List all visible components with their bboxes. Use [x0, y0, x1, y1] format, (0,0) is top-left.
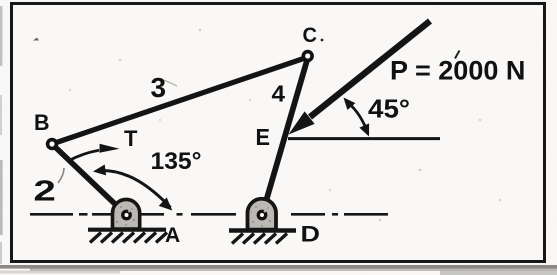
pin support block D — [229, 199, 296, 231]
svg-text:C: C — [303, 24, 318, 47]
ground hatching at A — [90, 233, 167, 243]
svg-text:A: A — [165, 224, 180, 247]
svg-text:P = 2000 N: P = 2000 N — [390, 56, 525, 86]
svg-text:4: 4 — [272, 81, 286, 107]
link 3 (coupler B-C) — [52, 57, 308, 144]
135 degree angle arc with arrowheads — [93, 165, 172, 211]
node C label — [321, 39, 324, 42]
svg-text:T: T — [124, 126, 138, 151]
pin D (revolute joint) — [258, 210, 266, 219]
link 2 (crank A-B) — [52, 144, 127, 215]
pin A (revolute joint) — [123, 210, 131, 219]
svg-text:135°: 135° — [151, 148, 202, 175]
ground centerline (dash-dot axis through pins A and D) — [30, 213, 388, 216]
ground hatching at D — [232, 234, 287, 244]
joint C — [303, 52, 312, 61]
pin support block A — [88, 199, 166, 229]
link 4 (rocker C-E-D) — [262, 57, 308, 215]
horizontal reference line at E — [288, 137, 440, 140]
svg-text:E: E — [256, 124, 271, 150]
joint B — [48, 140, 57, 149]
force P arrow (applied at E) — [289, 21, 431, 135]
45 degree angle arc with arrowheads — [344, 98, 370, 137]
svg-text:45°: 45° — [368, 94, 410, 124]
svg-text:2: 2 — [33, 176, 56, 208]
torque T curved arrow — [68, 144, 120, 161]
svg-text:D: D — [301, 222, 321, 247]
svg-text:3: 3 — [151, 72, 167, 103]
svg-text:B: B — [34, 110, 50, 135]
stray accent mark above 2000 — [455, 51, 460, 59]
